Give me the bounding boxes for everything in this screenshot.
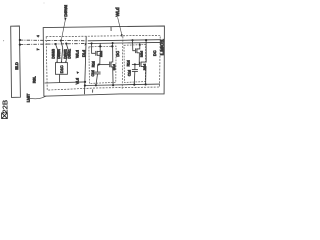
stub end dots on D1C: [57, 61, 58, 62]
svg-text:VLd: VLd: [75, 78, 79, 84]
svg-text:R1d: R1d: [127, 60, 131, 66]
cell2 M2d gate bar: [135, 48, 137, 53]
cell1 M1d gate bar: [109, 62, 111, 68]
plate rail line: [85, 84, 160, 85]
svg-text:D1C: D1C: [59, 65, 64, 73]
rail dot cell2 cap: [133, 84, 135, 86]
arrowhead: [121, 34, 123, 37]
inner dashed box: [46, 35, 160, 90]
array boundary dashed line: [121, 36, 124, 88]
cell1 C1d bottom plate: [95, 73, 101, 75]
cell1 gate junction dot on line B: [91, 42, 93, 44]
cell2 storage node wire: [132, 63, 139, 65]
cell2 M2d drain lead: [137, 43, 140, 49]
rail dot cell1 M1d: [112, 84, 114, 86]
svg-text:RSL: RSL: [32, 76, 36, 83]
cell1 storage node wire: [98, 64, 110, 66]
cell1 C1d bottom lead to rail: [96, 74, 98, 85]
DLd arrowhead: [85, 43, 87, 46]
cell2 M2d source lead: [137, 53, 140, 65]
svg-text:DC: DC: [116, 51, 120, 57]
svg-text:WLd: WLd: [75, 50, 79, 58]
cell1 M1d channel bar: [110, 62, 112, 68]
cell2 M1d source lead to rail: [141, 67, 146, 85]
switch DSW4 blade: [61, 41, 63, 48]
word driver block (left tall rectangle): [11, 26, 21, 97]
cell1 M1d drain lead: [111, 43, 113, 62]
D1C bottom wire: [59, 74, 61, 82]
dust speck left: [3, 40, 4, 41]
switch DSW3 blade: [56, 44, 58, 50]
svg-text:DSW1: DSW1: [67, 49, 71, 59]
switch DSW4 wire to D1C: [62, 48, 63, 63]
main box (memory array outline): [43, 26, 164, 96]
memory cell 2 dashed box: [124, 45, 146, 83]
switch DSW3 wire to D1C: [56, 50, 58, 63]
figure glyph boxed zu: [2, 113, 8, 119]
svg-text:M2d: M2d: [140, 51, 144, 57]
leader arrow from WLd label: [118, 17, 122, 35]
memory cell 1 dashed box: [89, 46, 116, 83]
tick mark on top edge: [110, 27, 112, 31]
svg-text:DSW4: DSW4: [57, 49, 61, 59]
junction dot RSL/DLd: [84, 81, 86, 83]
word line A solid right part: [88, 40, 161, 41]
svg-text:ELD: ELD: [14, 62, 19, 70]
DLd data line (vertical): [85, 37, 87, 95]
cell2 M2d gate wire: [133, 40, 136, 51]
svg-text:LMC1: LMC1: [160, 39, 165, 56]
node dot on line A at driver: [19, 39, 21, 41]
cell1 storage node dot: [98, 64, 100, 66]
svg-text:WLd: WLd: [115, 7, 120, 17]
cell2 C1d bottom plate: [132, 70, 138, 72]
RSL horizontal wire: [45, 82, 85, 83]
dust speck top: [43, 2, 46, 5]
svg-text:C1d: C1d: [127, 70, 131, 76]
cell2 C1d bottom lead to rail: [133, 72, 136, 85]
rail dot cell1 cap: [95, 84, 97, 86]
bottom tick stub: [92, 89, 94, 92]
switch DSW2: node dot: [65, 43, 67, 45]
cell1 M2d channel bar: [96, 51, 98, 56]
switch DSW3: node dot: [54, 43, 56, 45]
rail dot cell2 M1d: [145, 83, 147, 85]
cell2 M2d channel bar: [136, 48, 138, 53]
cell1 C1d top plate: [95, 71, 101, 73]
leader from DSWd to switch: [61, 21, 65, 40]
bus/word line B (dash-dot left part): [20, 44, 88, 45]
D1C box: [56, 63, 68, 75]
cell1 M2d gate bar: [95, 51, 97, 56]
svg-text:C1d: C1d: [91, 70, 95, 76]
switch DSW4: node dot: [60, 39, 62, 41]
cell1 M2d drain lead: [97, 43, 100, 51]
svg-text:LMIT: LMIT: [27, 93, 31, 102]
svg-text:DSWd: DSWd: [63, 5, 68, 17]
cell2 M1d drain lead: [141, 40, 146, 62]
arrowhead on DSWd leader: [64, 17, 66, 21]
switch DSW2 wire to D1C: [66, 50, 68, 63]
dot on cell edge for DC column: [111, 45, 113, 47]
rail junction dot at DLd: [84, 84, 86, 86]
cell2 storage node dot: [134, 63, 136, 65]
cell2 M1d gate bar: [139, 62, 141, 67]
cell1 M2d source lead: [97, 55, 100, 64]
cell2 drain dot at cell edge: [139, 44, 141, 46]
cell1 capacitor C1d top lead: [97, 65, 99, 72]
cell1 M2d gate wire: [92, 43, 96, 53]
node dot on line B at driver: [19, 43, 21, 45]
VLd tiny arrow: [77, 71, 80, 74]
cell1 drain dot at cell edge: [99, 45, 101, 47]
cell2 M2d gate junction dot on line A: [131, 39, 133, 41]
svg-text:R1d: R1d: [91, 61, 95, 67]
cell2 M1d channel bar: [140, 62, 142, 67]
curved leader to box corner: [30, 96, 47, 99]
dot on line B for DC column: [112, 42, 114, 44]
svg-text:DSW3: DSW3: [52, 49, 56, 59]
svg-text:DC: DC: [153, 50, 157, 56]
switch DSW2 blade: [66, 44, 68, 50]
dot on line A for DC2 column: [145, 39, 147, 41]
cell2 capacitor top lead: [134, 64, 136, 69]
word line B solid right part: [88, 42, 161, 43]
cell1 M1d source lead to rail: [111, 67, 113, 85]
cell2 C1d top plate: [132, 69, 138, 71]
bus/word line A (dash-dot left part): [20, 39, 88, 42]
svg-text:22B: 22B: [0, 100, 9, 114]
